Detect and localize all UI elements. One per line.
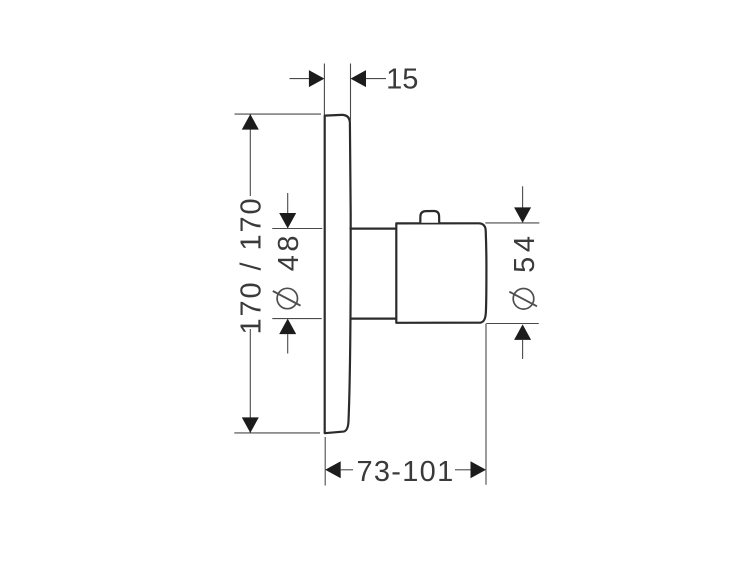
dim d54: lower arrow (points up) <box>514 324 531 340</box>
temperature stop tab on handle <box>420 211 439 223</box>
dim 73-101: left extension line <box>324 437 326 486</box>
valve stem top line <box>350 228 397 230</box>
dim 15: left arrow <box>309 70 325 87</box>
dim d54: bottom extension line <box>487 323 539 325</box>
svg-text:48: 48 <box>273 232 305 271</box>
dim 15: left extension line <box>323 64 325 115</box>
dim 170/170: bottom arrow <box>242 417 259 433</box>
dim 170/170: top arrow <box>242 114 259 130</box>
dim 15: right arrow <box>351 70 367 87</box>
svg-text:73-101: 73-101 <box>356 456 454 488</box>
dim d48: bottom extension line <box>272 318 321 320</box>
svg-text:15: 15 <box>386 64 418 96</box>
dim 73-101: left arrow (points left) <box>325 461 341 478</box>
dim d54: top extension line <box>485 222 539 224</box>
valve stem bottom line <box>350 318 397 320</box>
dim 15: left leader <box>290 78 311 80</box>
dim 73-101: left leader <box>341 469 353 471</box>
dim 73-101: right leader <box>455 469 471 471</box>
dim d48: lower leader <box>287 334 289 353</box>
svg-text:54: 54 <box>509 231 541 273</box>
dim d48: top extension line <box>272 228 322 230</box>
dim 170/170: top extension line <box>235 113 322 115</box>
svg-text:170 / 170: 170 / 170 <box>235 196 267 334</box>
dim 15: right extension line <box>350 64 352 122</box>
dim 170/170: lower line segment <box>249 329 251 433</box>
dim d48: diameter symbol slash <box>273 291 301 306</box>
dim 170/170: upper line segment <box>249 114 251 196</box>
dim d54: upper leader <box>522 186 524 208</box>
dim d54: upper arrow (points down) <box>514 207 531 223</box>
dim 15: right leader <box>366 78 386 80</box>
dim d48: lower arrow (points up) <box>279 319 296 335</box>
dim d48: diameter symbol circle <box>277 288 297 308</box>
handle knob <box>396 223 486 322</box>
dim d48: upper arrow (points down) <box>279 213 296 229</box>
dim 73-101: right arrow (points right) <box>471 461 487 478</box>
dim d54: diameter symbol circle <box>513 289 534 310</box>
escutcheon plate (side view) <box>325 115 351 433</box>
dim 73-101: right extension line <box>485 324 487 485</box>
dim d54: diameter symbol slash <box>509 292 537 307</box>
dim d54: lower leader <box>522 340 524 359</box>
dim 170/170: bottom extension line <box>234 432 320 434</box>
dim d48: upper leader <box>287 193 289 214</box>
